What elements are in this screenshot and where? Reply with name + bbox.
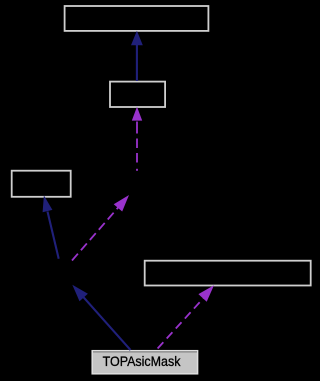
edge F: solid blue, second box to top box (inheritance) bbox=[131, 31, 143, 81]
edge A: solid blue, TOPAsicMask up-left to bend, arrowhead at bend bbox=[72, 285, 130, 350]
node box left bbox=[12, 171, 71, 197]
purple dot (end dash of vertical edge) bbox=[136, 169, 138, 171]
node box top (class box, empty label on black) bbox=[65, 6, 209, 31]
edge C: dashed purple diagonal, from bend up-right, arrowhead near dot bbox=[72, 195, 129, 261]
edge B: solid blue, from bend to left box bottom (inheritance) bbox=[43, 195, 59, 258]
node box second (middle upper) bbox=[110, 82, 165, 107]
node box TOPAsicMask (current class, grey fill) bbox=[92, 351, 197, 374]
edge E: dashed purple, TOPAsicMask up-right to right box bottom bbox=[158, 285, 214, 348]
edge D: dashed purple, vertical into second box bottom bbox=[132, 107, 142, 163]
svg-text:TOPAsicMask: TOPAsicMask bbox=[103, 354, 181, 369]
node box right bbox=[145, 261, 311, 286]
